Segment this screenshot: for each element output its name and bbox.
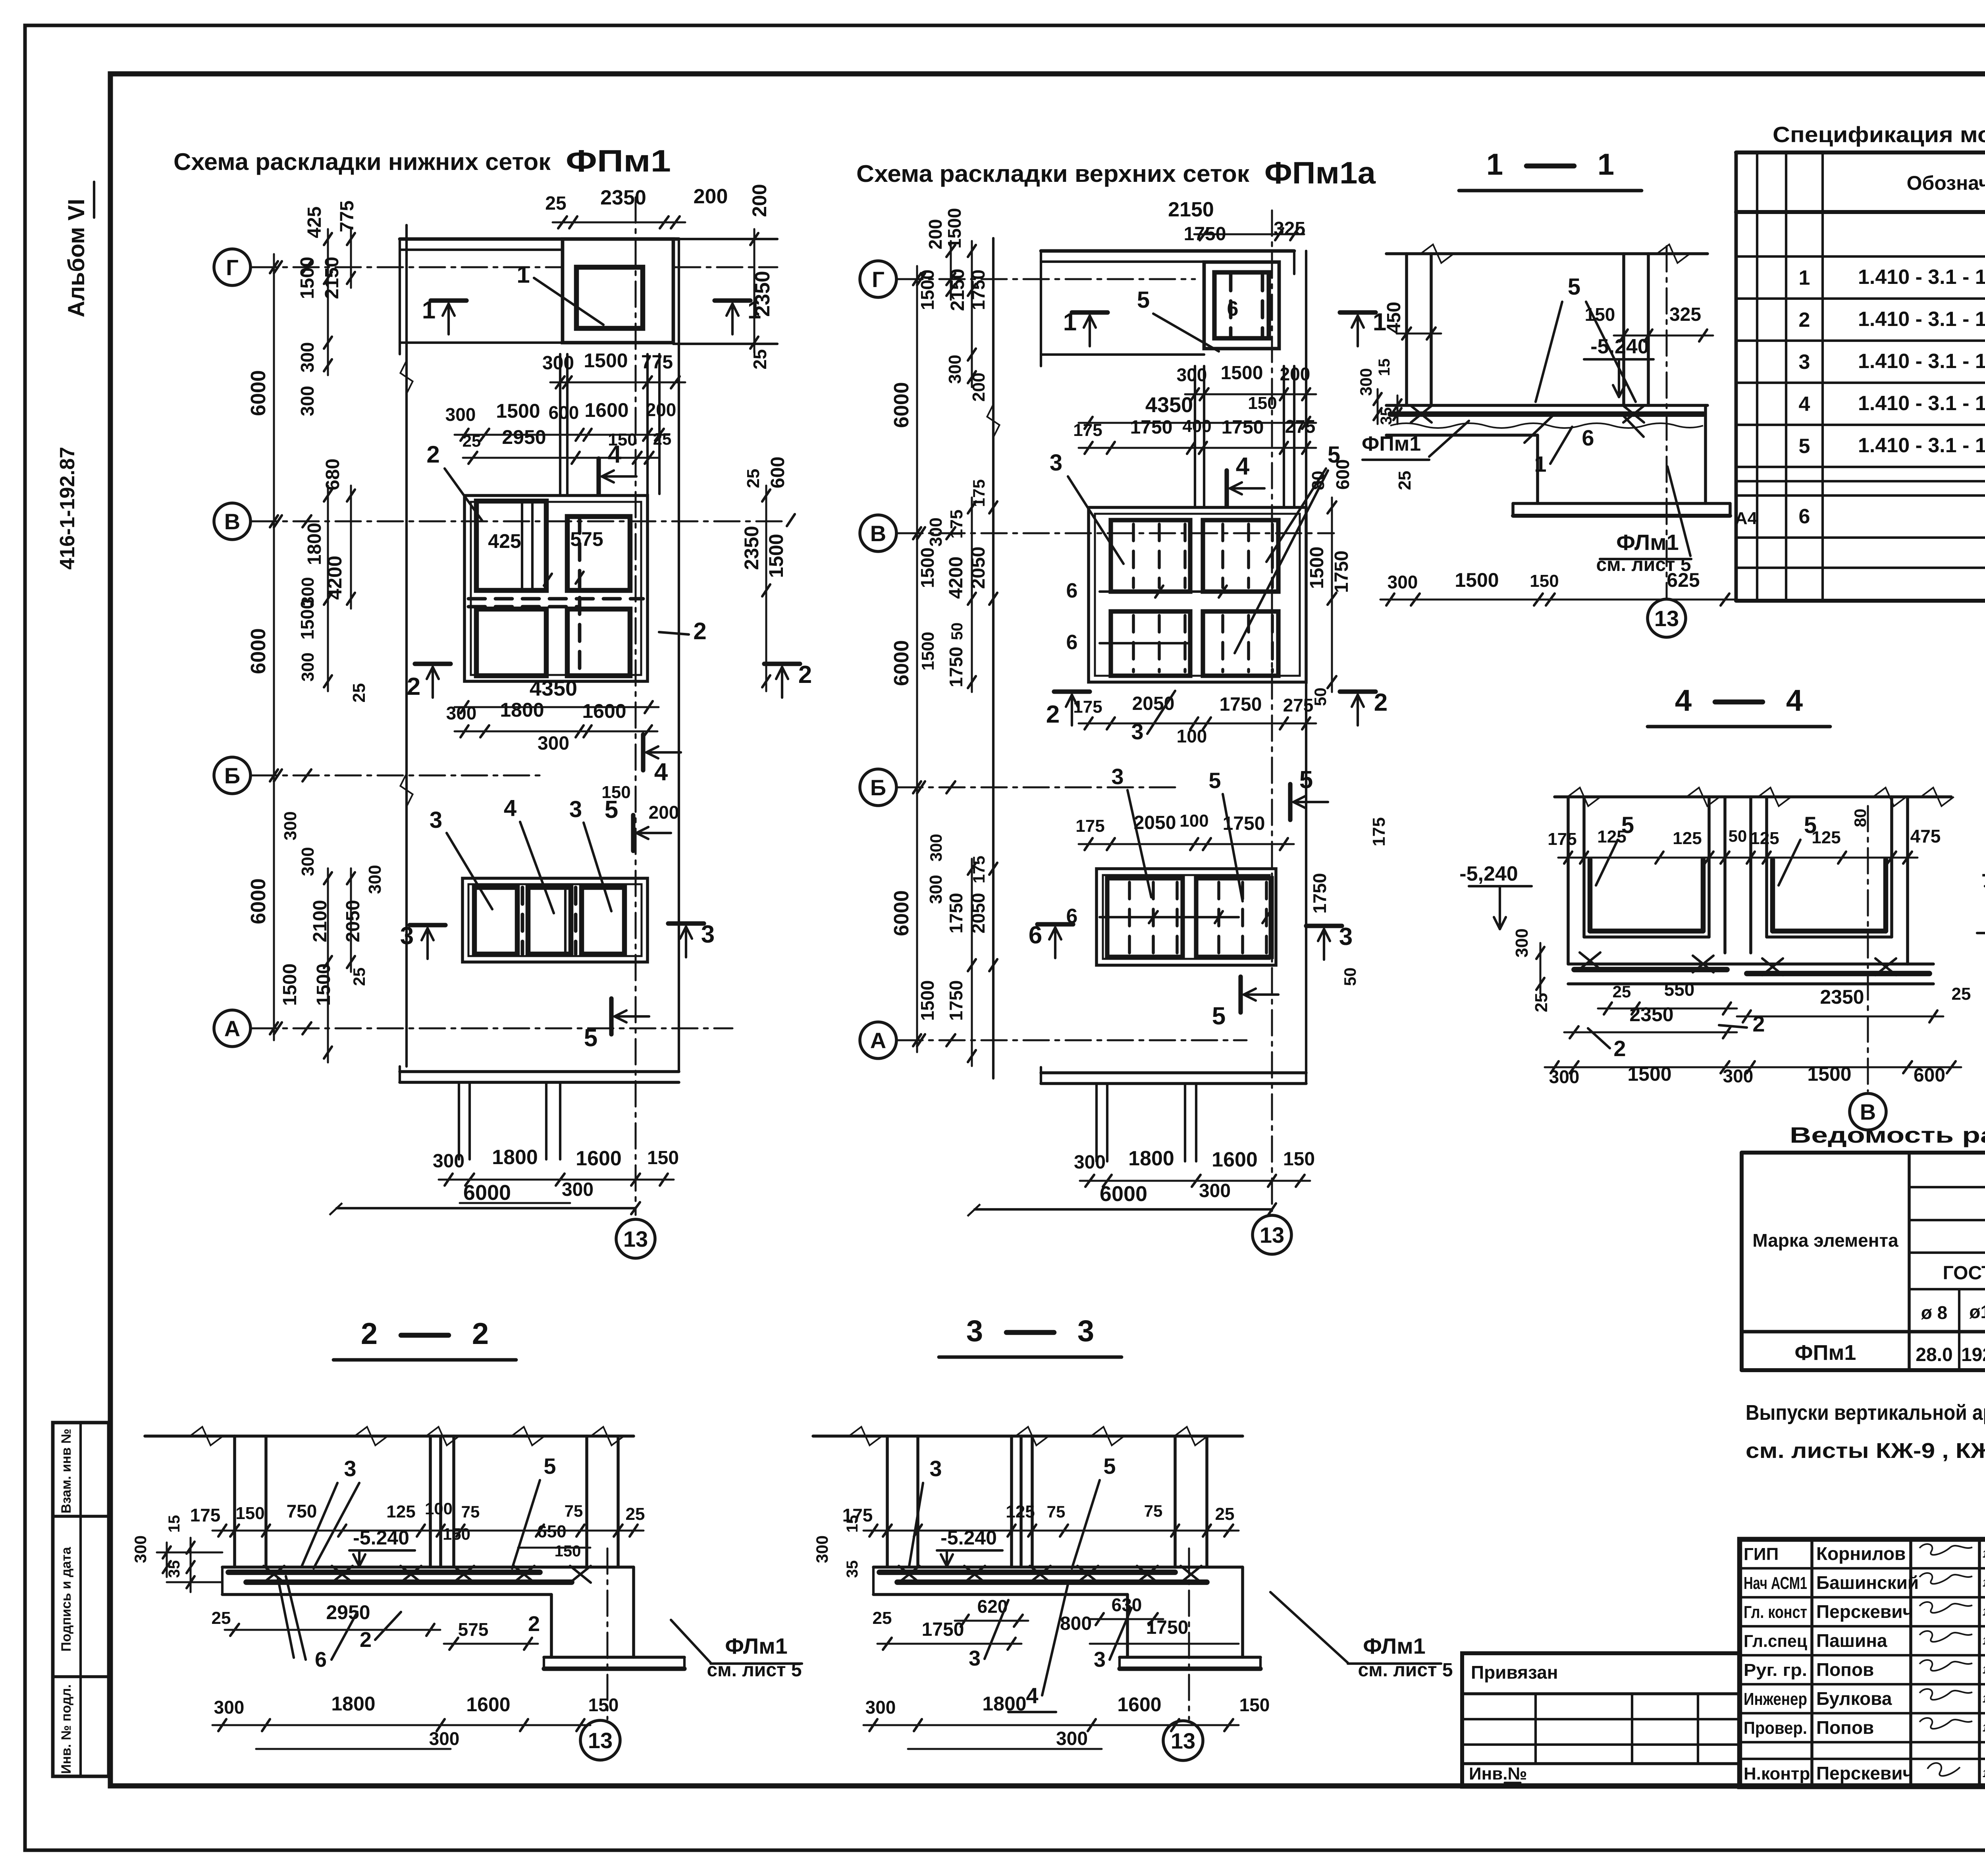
svg-text:125: 125 bbox=[1750, 829, 1779, 848]
svg-text:125: 125 bbox=[1597, 827, 1626, 846]
svg-text:150: 150 bbox=[1283, 1149, 1315, 1170]
svg-text:Инженер: Инженер bbox=[1744, 1689, 1807, 1709]
svg-text:1750: 1750 bbox=[1130, 417, 1173, 438]
svg-text:100: 100 bbox=[1179, 811, 1208, 831]
svg-text:300: 300 bbox=[1357, 368, 1375, 396]
svg-text:25: 25 bbox=[212, 1608, 231, 1628]
svg-text:15.10.86: 15.10.86 bbox=[1983, 1768, 1985, 1780]
svg-text:ФПм1: ФПм1 bbox=[1362, 432, 1421, 455]
svg-text:325: 325 bbox=[1669, 304, 1701, 325]
svg-text:1500: 1500 bbox=[313, 964, 334, 1006]
svg-text:1800: 1800 bbox=[492, 1146, 538, 1169]
svg-text:600: 600 bbox=[767, 457, 788, 488]
svg-text:-5.240: -5.240 bbox=[940, 1527, 997, 1549]
svg-text:3: 3 bbox=[1077, 1314, 1094, 1348]
svg-text:ФЛм1: ФЛм1 bbox=[725, 1633, 788, 1658]
svg-text:1500: 1500 bbox=[1627, 1063, 1671, 1085]
svg-text:Попов: Попов bbox=[1816, 1717, 1874, 1738]
svg-text:13.10.86: 13.10.86 bbox=[1983, 1722, 1985, 1734]
svg-text:1750: 1750 bbox=[1146, 1617, 1189, 1638]
svg-text:5: 5 bbox=[1137, 287, 1150, 313]
svg-text:1750: 1750 bbox=[946, 980, 966, 1021]
svg-text:2150: 2150 bbox=[322, 257, 343, 299]
svg-text:-5.240: -5.240 bbox=[1590, 335, 1649, 358]
svg-text:275: 275 bbox=[1285, 416, 1316, 437]
svg-text:1500: 1500 bbox=[279, 964, 301, 1006]
svg-text:ФПм1а: ФПм1а bbox=[1264, 155, 1376, 190]
svg-text:2: 2 bbox=[426, 441, 439, 468]
svg-text:50: 50 bbox=[1341, 968, 1359, 986]
svg-text:13: 13 bbox=[623, 1226, 648, 1251]
svg-text:Г: Г bbox=[872, 267, 885, 292]
svg-text:6: 6 bbox=[1799, 505, 1810, 528]
svg-text:4200: 4200 bbox=[324, 555, 346, 600]
svg-text:Марка элемента: Марка элемента bbox=[1752, 1230, 1898, 1251]
svg-text:75: 75 bbox=[461, 1502, 480, 1521]
svg-text:3: 3 bbox=[569, 796, 582, 822]
svg-text:300: 300 bbox=[131, 1535, 150, 1563]
svg-text:4: 4 bbox=[1786, 684, 1803, 717]
svg-text:Н.контр: Н.контр bbox=[1744, 1764, 1810, 1783]
svg-text:750: 750 bbox=[287, 1501, 317, 1521]
svg-text:Руг. гр.: Руг. гр. bbox=[1744, 1660, 1807, 1680]
svg-text:300: 300 bbox=[926, 517, 946, 546]
svg-text:Привязан: Привязан bbox=[1471, 1662, 1558, 1683]
svg-text:300: 300 bbox=[865, 1697, 896, 1718]
svg-text:1500: 1500 bbox=[1455, 569, 1499, 591]
svg-text:28.0: 28.0 bbox=[1916, 1344, 1952, 1365]
svg-text:325: 325 bbox=[1274, 218, 1305, 239]
svg-text:4: 4 bbox=[654, 758, 668, 786]
svg-text:25: 25 bbox=[626, 1504, 645, 1524]
svg-text:25: 25 bbox=[653, 430, 672, 448]
svg-text:1600: 1600 bbox=[584, 399, 628, 421]
svg-text:4: 4 bbox=[1026, 1683, 1038, 1708]
svg-text:А: А bbox=[870, 1028, 886, 1053]
svg-text:6: 6 bbox=[1066, 579, 1078, 602]
svg-text:300: 300 bbox=[538, 733, 569, 754]
svg-text:192.0: 192.0 bbox=[1961, 1344, 1985, 1365]
svg-text:Спецификация монолитной конс: Спецификация монолитной конструкции bbox=[1773, 122, 1985, 147]
svg-text:175: 175 bbox=[947, 509, 966, 538]
svg-text:550: 550 bbox=[1664, 979, 1695, 1000]
svg-text:300: 300 bbox=[298, 652, 318, 681]
svg-text:1800: 1800 bbox=[304, 523, 325, 565]
svg-text:3: 3 bbox=[966, 1314, 983, 1348]
svg-text:1500: 1500 bbox=[584, 349, 628, 372]
svg-text:300: 300 bbox=[813, 1535, 831, 1563]
svg-text:2: 2 bbox=[1799, 308, 1810, 332]
svg-text:Гл. конст: Гл. конст bbox=[1744, 1602, 1807, 1622]
svg-text:2350: 2350 bbox=[600, 186, 646, 209]
svg-text:3: 3 bbox=[344, 1456, 356, 1481]
svg-text:ФПм1: ФПм1 bbox=[1795, 1341, 1856, 1365]
svg-text:4: 4 bbox=[1675, 684, 1692, 717]
svg-text:75: 75 bbox=[1144, 1502, 1163, 1520]
svg-text:2: 2 bbox=[693, 618, 706, 644]
svg-text:1750: 1750 bbox=[968, 270, 989, 310]
svg-text:175: 175 bbox=[1073, 420, 1102, 440]
svg-text:Гл.спец: Гл.спец bbox=[1744, 1631, 1807, 1651]
svg-text:2: 2 bbox=[1046, 701, 1060, 728]
svg-text:650: 650 bbox=[537, 1522, 566, 1541]
svg-text:Г: Г bbox=[226, 255, 239, 280]
svg-text:200: 200 bbox=[649, 802, 679, 823]
svg-text:475: 475 bbox=[1910, 826, 1941, 846]
svg-text:5: 5 bbox=[1799, 435, 1810, 458]
svg-text:300: 300 bbox=[1723, 1066, 1754, 1086]
svg-text:5: 5 bbox=[1568, 274, 1580, 300]
svg-text:5: 5 bbox=[1299, 766, 1313, 794]
svg-text:5: 5 bbox=[584, 1024, 597, 1052]
svg-text:425: 425 bbox=[304, 206, 325, 238]
svg-text:5: 5 bbox=[605, 796, 618, 823]
svg-text:6: 6 bbox=[1029, 922, 1042, 949]
svg-text:775: 775 bbox=[337, 201, 358, 232]
svg-text:4: 4 bbox=[504, 795, 516, 821]
svg-text:300: 300 bbox=[446, 703, 477, 723]
svg-text:1750: 1750 bbox=[1220, 694, 1262, 715]
svg-text:1750: 1750 bbox=[946, 647, 966, 687]
svg-text:1: 1 bbox=[1534, 451, 1546, 476]
svg-text:Альбом VI: Альбом VI bbox=[64, 199, 89, 318]
svg-text:6: 6 bbox=[1066, 631, 1078, 654]
svg-text:25: 25 bbox=[873, 1608, 892, 1628]
svg-text:6: 6 bbox=[315, 1648, 327, 1672]
svg-text:2: 2 bbox=[1374, 689, 1388, 716]
svg-text:Схема раскладки верхних сет: Схема раскладки верхних сеток bbox=[856, 160, 1250, 187]
svg-text:ø16: ø16 bbox=[1969, 1301, 1985, 1322]
svg-text:175: 175 bbox=[1548, 829, 1576, 849]
svg-text:175: 175 bbox=[969, 856, 988, 883]
svg-text:25: 25 bbox=[350, 968, 368, 986]
svg-text:6000: 6000 bbox=[463, 1181, 511, 1205]
svg-text:1750: 1750 bbox=[1222, 417, 1264, 438]
svg-text:175: 175 bbox=[1369, 817, 1389, 846]
svg-text:6000: 6000 bbox=[247, 370, 270, 416]
svg-text:50: 50 bbox=[1311, 688, 1330, 706]
svg-text:Корнилов: Корнилов bbox=[1816, 1543, 1906, 1564]
svg-text:4: 4 bbox=[1236, 453, 1250, 480]
svg-text:Подпись и дата: Подпись и дата bbox=[59, 1546, 74, 1652]
svg-text:300: 300 bbox=[1056, 1728, 1088, 1749]
svg-text:Булкова: Булкова bbox=[1816, 1688, 1892, 1709]
svg-text:ФПм1: ФПм1 bbox=[566, 143, 671, 178]
svg-text:6000: 6000 bbox=[247, 628, 270, 674]
svg-text:300: 300 bbox=[297, 386, 318, 416]
svg-text:15.10.85: 15.10.85 bbox=[1983, 1577, 1985, 1589]
svg-text:175: 175 bbox=[1075, 816, 1104, 836]
svg-text:2050: 2050 bbox=[343, 900, 364, 943]
svg-text:2350: 2350 bbox=[1629, 1003, 1673, 1026]
svg-text:Схема раскладки нижних сето: Схема раскладки нижних сеток bbox=[173, 148, 551, 175]
svg-text:100: 100 bbox=[425, 1499, 453, 1518]
svg-text:Инв.№: Инв.№ bbox=[1469, 1764, 1527, 1783]
svg-text:6: 6 bbox=[1227, 297, 1239, 320]
svg-text:125: 125 bbox=[386, 1502, 415, 1521]
svg-text:1500: 1500 bbox=[1221, 362, 1263, 384]
svg-text:Взам. инв №: Взам. инв № bbox=[59, 1429, 74, 1514]
svg-text:15.11.86: 15.11.86 bbox=[1983, 1606, 1985, 1618]
svg-text:25: 25 bbox=[1215, 1504, 1235, 1524]
svg-text:1500: 1500 bbox=[1807, 1063, 1851, 1085]
svg-text:-5,240: -5,240 bbox=[1459, 862, 1518, 885]
svg-text:150: 150 bbox=[1585, 304, 1615, 325]
svg-text:2050: 2050 bbox=[968, 547, 989, 589]
svg-text:200: 200 bbox=[646, 399, 676, 420]
svg-text:Ведомость расхода стали на: Ведомость расхода стали на элемент , кг bbox=[1790, 1122, 1985, 1147]
svg-text:14.10.85: 14.10.85 bbox=[1983, 1635, 1985, 1647]
svg-text:2100: 2100 bbox=[310, 900, 331, 943]
svg-text:800: 800 bbox=[1060, 1613, 1092, 1634]
svg-text:1500: 1500 bbox=[765, 534, 787, 578]
svg-text:5: 5 bbox=[1103, 1454, 1116, 1479]
svg-text:300: 300 bbox=[365, 865, 385, 894]
svg-text:300: 300 bbox=[445, 404, 476, 425]
svg-text:25: 25 bbox=[1613, 982, 1631, 1001]
svg-text:200: 200 bbox=[748, 184, 771, 217]
svg-text:2950: 2950 bbox=[326, 1601, 370, 1623]
svg-text:25: 25 bbox=[1532, 993, 1551, 1012]
svg-text:5: 5 bbox=[543, 1454, 556, 1479]
svg-text:1500: 1500 bbox=[918, 632, 938, 671]
svg-text:Попов: Попов bbox=[1816, 1659, 1874, 1680]
svg-text:1: 1 bbox=[516, 261, 530, 288]
svg-text:-5,240: -5,240 bbox=[1981, 862, 1985, 885]
svg-text:680: 680 bbox=[322, 459, 343, 490]
svg-text:150: 150 bbox=[555, 1542, 581, 1560]
svg-text:25: 25 bbox=[545, 193, 566, 214]
svg-text:75: 75 bbox=[1047, 1502, 1066, 1521]
svg-text:175: 175 bbox=[969, 479, 988, 507]
svg-text:25: 25 bbox=[1395, 471, 1415, 490]
svg-text:25: 25 bbox=[750, 349, 770, 369]
svg-text:5: 5 bbox=[1212, 1003, 1226, 1030]
svg-text:2: 2 bbox=[360, 1628, 372, 1652]
svg-text:300: 300 bbox=[1512, 928, 1532, 957]
svg-text:1500: 1500 bbox=[1307, 547, 1328, 589]
svg-text:6000: 6000 bbox=[890, 640, 913, 686]
svg-text:1600: 1600 bbox=[466, 1693, 510, 1716]
svg-text:15: 15 bbox=[1376, 359, 1393, 376]
svg-text:2150: 2150 bbox=[1168, 198, 1214, 221]
svg-text:150: 150 bbox=[443, 1525, 470, 1543]
svg-text:600: 600 bbox=[549, 402, 579, 423]
svg-text:3: 3 bbox=[430, 807, 442, 833]
svg-text:2: 2 bbox=[528, 1612, 540, 1636]
svg-text:4200: 4200 bbox=[946, 557, 967, 599]
svg-text:ГИП: ГИП bbox=[1744, 1544, 1779, 1564]
svg-text:150: 150 bbox=[235, 1504, 264, 1523]
svg-text:17.10.86: 17.10.86 bbox=[1983, 1548, 1985, 1560]
svg-text:175: 175 bbox=[1073, 697, 1102, 717]
svg-text:1750: 1750 bbox=[1309, 873, 1330, 914]
svg-text:Башинский: Башинский bbox=[1816, 1572, 1919, 1593]
svg-text:2950: 2950 bbox=[502, 426, 546, 448]
svg-text:1.410 - 3.1 - 12: 1.410 - 3.1 - 12 bbox=[1858, 434, 1985, 457]
svg-text:3: 3 bbox=[701, 921, 715, 948]
svg-text:450: 450 bbox=[1384, 302, 1405, 334]
svg-text:1750: 1750 bbox=[946, 893, 966, 933]
svg-text:2: 2 bbox=[361, 1317, 378, 1351]
svg-text:100: 100 bbox=[1177, 726, 1207, 746]
svg-text:300: 300 bbox=[1074, 1152, 1106, 1173]
svg-text:1750: 1750 bbox=[1331, 551, 1352, 593]
svg-text:200: 200 bbox=[969, 372, 989, 401]
svg-text:35: 35 bbox=[844, 1560, 861, 1578]
svg-text:15: 15 bbox=[844, 1515, 861, 1533]
svg-text:А4: А4 bbox=[1735, 509, 1758, 528]
svg-text:175: 175 bbox=[190, 1505, 221, 1525]
svg-text:Обозначение: Обозначение bbox=[1907, 172, 1985, 194]
svg-text:150: 150 bbox=[1530, 571, 1559, 591]
svg-text:300: 300 bbox=[927, 834, 945, 862]
svg-text:25: 25 bbox=[349, 683, 369, 703]
svg-text:5: 5 bbox=[1208, 768, 1221, 793]
svg-text:6000: 6000 bbox=[890, 890, 913, 936]
svg-text:775: 775 bbox=[641, 352, 673, 373]
svg-text:630: 630 bbox=[1112, 1595, 1142, 1615]
svg-text:80: 80 bbox=[1851, 809, 1869, 827]
svg-text:625: 625 bbox=[1667, 569, 1700, 591]
svg-text:6000: 6000 bbox=[1100, 1182, 1147, 1206]
svg-text:150: 150 bbox=[1239, 1695, 1270, 1715]
svg-text:2: 2 bbox=[1752, 1011, 1765, 1036]
svg-text:25: 25 bbox=[744, 469, 763, 488]
svg-text:150: 150 bbox=[588, 1695, 619, 1715]
svg-text:6000: 6000 bbox=[890, 382, 913, 428]
svg-text:1500: 1500 bbox=[917, 548, 938, 588]
svg-text:1: 1 bbox=[1063, 308, 1077, 336]
svg-text:1800: 1800 bbox=[500, 699, 544, 721]
svg-text:275: 275 bbox=[1283, 695, 1314, 715]
svg-text:1500: 1500 bbox=[297, 257, 318, 299]
svg-text:1750: 1750 bbox=[922, 1619, 964, 1640]
svg-text:1500: 1500 bbox=[297, 599, 318, 640]
svg-text:Провер.: Провер. bbox=[1744, 1718, 1807, 1738]
svg-text:600: 600 bbox=[1914, 1065, 1945, 1086]
svg-text:1600: 1600 bbox=[576, 1147, 622, 1170]
svg-text:Б: Б bbox=[224, 763, 240, 788]
svg-text:4350: 4350 bbox=[1145, 393, 1193, 417]
svg-text:2350: 2350 bbox=[740, 526, 763, 570]
svg-text:1500: 1500 bbox=[944, 208, 965, 249]
svg-text:Пашина: Пашина bbox=[1816, 1630, 1887, 1651]
svg-text:300: 300 bbox=[429, 1728, 460, 1749]
svg-text:125: 125 bbox=[1006, 1502, 1035, 1521]
svg-text:300: 300 bbox=[1177, 364, 1207, 385]
svg-text:4350: 4350 bbox=[530, 677, 577, 700]
svg-text:В: В bbox=[870, 521, 886, 546]
svg-text:6000: 6000 bbox=[247, 878, 270, 924]
svg-text:2050: 2050 bbox=[1134, 812, 1176, 833]
svg-text:425: 425 bbox=[488, 530, 521, 552]
svg-text:300: 300 bbox=[298, 847, 318, 876]
svg-text:ГОСТ 5781 - 82: ГОСТ 5781 - 82 bbox=[1943, 1263, 1985, 1284]
svg-text:Выпуски вертикальной арматур: Выпуски вертикальной арматуры из фундаме… bbox=[1746, 1401, 1985, 1425]
svg-text:3: 3 bbox=[1111, 764, 1124, 789]
svg-text:3: 3 bbox=[1094, 1648, 1106, 1672]
svg-text:1750: 1750 bbox=[1184, 224, 1226, 245]
svg-text:4: 4 bbox=[1799, 393, 1810, 416]
svg-text:А: А bbox=[224, 1016, 240, 1041]
svg-text:1800: 1800 bbox=[331, 1693, 375, 1715]
svg-text:Б: Б bbox=[870, 775, 886, 800]
svg-text:1.410 - 3.1 - 12: 1.410 - 3.1 - 12 bbox=[1858, 350, 1985, 373]
svg-text:Перскевич: Перскевич bbox=[1816, 1763, 1913, 1783]
svg-text:2150: 2150 bbox=[947, 269, 968, 311]
svg-text:В: В bbox=[224, 509, 240, 534]
svg-text:200: 200 bbox=[1280, 364, 1310, 384]
svg-text:80: 80 bbox=[1309, 471, 1328, 490]
svg-text:6: 6 bbox=[1582, 425, 1594, 450]
svg-text:Перскевич: Перскевич bbox=[1816, 1601, 1913, 1622]
svg-text:575: 575 bbox=[458, 1619, 489, 1640]
svg-text:2: 2 bbox=[407, 673, 420, 700]
svg-text:3: 3 bbox=[1799, 351, 1810, 374]
svg-text:1: 1 bbox=[422, 297, 436, 324]
svg-text:1: 1 bbox=[1486, 148, 1503, 181]
svg-text:300: 300 bbox=[281, 811, 300, 840]
svg-text:3: 3 bbox=[400, 922, 414, 950]
svg-text:2050: 2050 bbox=[968, 893, 989, 933]
svg-text:13: 13 bbox=[588, 1728, 613, 1753]
svg-text:75: 75 bbox=[565, 1502, 583, 1520]
svg-text:1500: 1500 bbox=[917, 270, 938, 310]
svg-text:3: 3 bbox=[1131, 719, 1143, 744]
svg-text:1500: 1500 bbox=[917, 980, 938, 1021]
svg-text:1600: 1600 bbox=[1117, 1693, 1161, 1716]
svg-text:ø 8: ø 8 bbox=[1921, 1302, 1947, 1323]
svg-text:125: 125 bbox=[1673, 829, 1702, 848]
svg-text:300: 300 bbox=[945, 355, 965, 384]
svg-text:25: 25 bbox=[463, 432, 481, 450]
svg-text:50: 50 bbox=[1729, 827, 1747, 845]
svg-text:575: 575 bbox=[570, 528, 603, 550]
svg-text:3: 3 bbox=[1050, 450, 1062, 476]
svg-text:4: 4 bbox=[608, 441, 622, 468]
svg-text:150: 150 bbox=[1248, 393, 1277, 413]
svg-text:см. листы КЖ-9 , КЖ-10.: см. листы КЖ-9 , КЖ-10. bbox=[1746, 1439, 1985, 1463]
svg-text:50: 50 bbox=[948, 623, 966, 640]
svg-text:1600: 1600 bbox=[1212, 1148, 1258, 1171]
svg-text:1.410 - 3.1 - 12: 1.410 - 3.1 - 12 bbox=[1858, 266, 1985, 289]
svg-text:Нач АСМ1: Нач АСМ1 bbox=[1744, 1573, 1807, 1593]
svg-text:300: 300 bbox=[433, 1151, 464, 1172]
svg-text:13: 13 bbox=[1654, 606, 1679, 631]
svg-text:ФЛм1: ФЛм1 bbox=[1363, 1633, 1426, 1658]
svg-text:13.10.86: 13.10.86 bbox=[1983, 1664, 1985, 1676]
svg-text:1: 1 bbox=[748, 297, 761, 324]
svg-text:3: 3 bbox=[969, 1647, 981, 1670]
svg-text:400: 400 bbox=[1182, 416, 1211, 436]
svg-text:300: 300 bbox=[214, 1697, 245, 1718]
svg-text:3: 3 bbox=[929, 1456, 942, 1481]
svg-text:300: 300 bbox=[1549, 1066, 1580, 1087]
svg-text:2: 2 bbox=[1613, 1036, 1626, 1061]
svg-text:15: 15 bbox=[166, 1515, 183, 1533]
svg-text:13: 13 bbox=[1260, 1222, 1284, 1247]
svg-text:ФЛм1: ФЛм1 bbox=[1616, 530, 1679, 555]
svg-text:300: 300 bbox=[562, 1179, 594, 1200]
svg-text:150: 150 bbox=[647, 1147, 679, 1168]
svg-text:1800: 1800 bbox=[982, 1693, 1026, 1715]
svg-text:В: В bbox=[1860, 1099, 1876, 1124]
svg-text:200: 200 bbox=[925, 219, 946, 250]
svg-text:1: 1 bbox=[1598, 148, 1614, 181]
svg-text:300: 300 bbox=[926, 875, 946, 904]
svg-text:3: 3 bbox=[1339, 923, 1353, 951]
